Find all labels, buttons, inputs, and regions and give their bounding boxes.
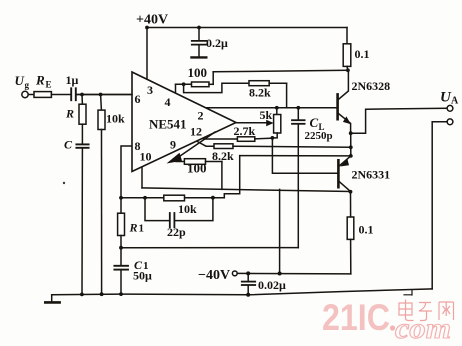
wire long lower run to 2N6331 collector [142, 188, 351, 192]
node collector junction dot [346, 68, 350, 72]
label 2.7k [234, 124, 256, 138]
capacitor CL 2250p [292, 108, 305, 248]
svg-text:NE541: NE541 [149, 117, 187, 132]
node rail dot 10k chain [100, 292, 104, 296]
svg-text:2N6331: 2N6331 [352, 168, 391, 182]
svg-text:2: 2 [198, 109, 204, 123]
label C1 [134, 258, 149, 272]
svg-text:10k: 10k [106, 112, 125, 126]
svg-text:+40V: +40V [136, 13, 168, 28]
svg-text:R: R [129, 221, 138, 235]
node CL top dot [296, 106, 300, 110]
terminal -40V circle [232, 271, 237, 276]
transistor Q1 emitter with arrow [338, 114, 351, 134]
stray ink dot [63, 182, 65, 184]
svg-text:U: U [15, 73, 25, 88]
svg-text:1μ: 1μ [66, 73, 79, 87]
resistor RE [28, 92, 70, 98]
svg-text:4: 4 [165, 95, 171, 109]
label 1u [66, 73, 79, 87]
svg-text:10k: 10k [178, 202, 197, 216]
wire pin9 diagonal from edge [177, 132, 216, 159]
label 5k [260, 108, 273, 122]
capacitor 0.02u [242, 273, 255, 294]
label R1 [129, 221, 145, 235]
svg-text:9: 9 [170, 138, 176, 152]
resistor 100 (lower) [176, 159, 222, 165]
wire 0.1 bottom stub to node [346, 66, 349, 70]
node +40V supply dot [145, 26, 149, 30]
label RE [35, 73, 52, 90]
wire +40V top rail [147, 27, 347, 29]
resistor 10k (input) [98, 95, 105, 295]
label 0.1 lower [359, 223, 374, 237]
svg-text:21IC: 21IC [322, 297, 390, 338]
wire output node to mid feedback run y=155.6 [240, 155, 351, 157]
svg-text:0.2μ: 0.2μ [206, 36, 228, 50]
svg-text:2.7k: 2.7k [234, 124, 256, 138]
label 2N6331 [352, 168, 391, 182]
svg-text:0.1: 0.1 [355, 47, 370, 61]
svg-text:R: R [65, 107, 74, 121]
svg-text:50μ: 50μ [133, 269, 152, 283]
ground rail small step mark [404, 290, 412, 295]
resistor R1 [118, 213, 125, 235]
pin label 3 [147, 83, 153, 97]
pin label 6 [135, 92, 141, 106]
terminal input circle [22, 91, 28, 97]
label 8.2k lower [212, 149, 234, 163]
svg-text:−40V: −40V [198, 268, 230, 283]
svg-text:100: 100 [188, 65, 208, 80]
node 10k row right dot [211, 196, 215, 200]
node input R tap dot [80, 93, 84, 97]
svg-text:C: C [310, 115, 319, 130]
svg-text:0.02μ: 0.02μ [258, 278, 286, 292]
wire jog down from y155.6 to 10k row [224, 156, 239, 198]
pin label 10 [140, 150, 152, 164]
label 2N6328 [352, 79, 391, 93]
node rail dot C1 chain [119, 292, 123, 296]
node R1 top dot [119, 196, 123, 200]
label 10k input [106, 112, 125, 126]
svg-text:2N6328: 2N6328 [352, 79, 391, 93]
node 5k/2.7k junction dot [271, 136, 275, 140]
node A junction dot (pin4 / 100) [182, 82, 186, 86]
wire pin 4 stub [175, 84, 177, 93]
label 0.02u [258, 278, 286, 292]
svg-text:6: 6 [135, 92, 141, 106]
label Ug [15, 73, 30, 90]
svg-text:2250p: 2250p [305, 130, 333, 142]
pin label 4 [165, 95, 171, 109]
node R1 bottom dot [119, 246, 123, 250]
capacitor 22p parallel loop [145, 198, 213, 228]
svg-text:12: 12 [190, 125, 202, 139]
capacitor C1 50u [114, 248, 128, 295]
svg-text:8.2k: 8.2k [249, 86, 271, 100]
wire pin 10 stub down [141, 167, 143, 188]
resistor 100 (upper) [176, 82, 214, 87]
label C [64, 138, 73, 152]
label 8.2k upper [249, 86, 271, 100]
wire 10k feedback row [121, 197, 224, 199]
wire R1 bottom to node [120, 236, 122, 248]
capacitor 0.2u [192, 28, 207, 58]
wire output chain down [350, 133, 352, 156]
svg-text:com: com [395, 312, 451, 345]
label 100 lower [187, 161, 207, 176]
wire jog from node A to 8.2k upper [184, 83, 249, 92]
wire rail corner down to 0.1 top resistor [346, 28, 348, 44]
node 0.2u tap dot [197, 26, 201, 30]
label +40V [136, 13, 168, 28]
wire op-amp output to 5k wiper with arrow [236, 120, 274, 126]
node input 10k tap dot [99, 93, 103, 97]
svg-text:C: C [64, 138, 73, 152]
label 2250p [305, 130, 333, 142]
capacitor C [76, 144, 88, 294]
wire pin 2 line to 2N6328 base [205, 107, 337, 109]
wire feedback top run y=71 [213, 70, 348, 72]
label 0.1 upper [355, 47, 370, 61]
label 50u [133, 269, 152, 283]
label 22p [167, 225, 186, 239]
resistor 10k (feedback) [164, 195, 185, 201]
label 0.2u [206, 36, 228, 50]
node Q2 collector dot [349, 190, 353, 194]
node 0.02u tap dot [246, 271, 250, 275]
transistor Q2 2N6331 base bar [337, 160, 340, 187]
svg-text:5k: 5k [260, 108, 273, 122]
wire op-amp pin 8 to R1 chain [121, 146, 132, 213]
pin label 12 [190, 125, 202, 139]
resistor R [79, 95, 86, 144]
svg-text:3: 3 [147, 83, 153, 97]
wire output to terminal Uo upper [351, 108, 447, 133]
capacitor 1u [71, 88, 132, 100]
resistor 2.7k [203, 137, 272, 142]
wire vertical from 100 right end up [212, 72, 214, 85]
wire R1C1 row to CL bottom [121, 247, 298, 249]
node chain dot lower [349, 154, 353, 158]
label NE541 [149, 117, 187, 132]
label 10k feedback [178, 202, 197, 216]
node 5k top dot [275, 106, 279, 110]
svg-text:0.1: 0.1 [359, 223, 374, 237]
transistor Q1 2N6328 base bar [336, 94, 339, 119]
ground symbol [51, 295, 53, 303]
node 10k row left dot [143, 196, 147, 200]
node -40V drop junction dot [278, 272, 282, 276]
node chain dot mid [349, 145, 353, 149]
label UA [440, 90, 459, 107]
svg-text:R: R [35, 73, 45, 88]
wire 8.2k upper down to base line [286, 83, 288, 108]
watermark 21IC [322, 297, 454, 345]
pin label 8 [135, 139, 141, 153]
node rail dot 0.02u [246, 293, 250, 297]
wire down then right to 2N6331 base [272, 138, 337, 173]
watermark dianziwang characters [399, 300, 454, 321]
wire lower terminal down right side to ground rail [432, 122, 447, 289]
wire drop from lower run to -40V line [279, 189, 281, 273]
svg-text:100: 100 [187, 161, 207, 176]
terminal circle lower [447, 119, 453, 125]
svg-text:22p: 22p [167, 225, 186, 239]
svg-text:A: A [451, 96, 459, 107]
arrow into 100 lower [167, 153, 183, 164]
wire 100 lower right end down to lower run [221, 162, 223, 190]
node rail dot R chain [80, 293, 84, 297]
resistor 8.2k (upper) [249, 81, 287, 86]
node output emitter dot [349, 131, 353, 135]
label 100 upper [188, 65, 208, 80]
wire input to pin 6 (drawn over triangle fill) [77, 94, 132, 96]
svg-text:1: 1 [139, 223, 145, 235]
wire pin 12 stub to 8.2k lower [196, 141, 215, 147]
label -40V [198, 268, 230, 283]
wire -40V line [237, 272, 351, 275]
label CL [310, 115, 325, 132]
pin label 9 [170, 138, 176, 152]
potentiometer 5k [272, 108, 280, 138]
wire ground rail [52, 289, 433, 295]
transistor Q2 emitter with arrow (points toward bar) [339, 156, 351, 167]
wire +40V stub down to op-amp pin 3 [146, 28, 148, 79]
terminal circle upper [447, 105, 453, 111]
svg-text:E: E [46, 80, 52, 90]
resistor 0.1 (upper, collector load) [343, 44, 351, 67]
resistor 0.1 (lower) [347, 192, 354, 274]
label R [65, 107, 74, 121]
svg-text:g: g [25, 80, 30, 90]
svg-text:10: 10 [140, 150, 152, 164]
resistor 8.2k (lower) [214, 144, 351, 149]
transistor Q1 collector [338, 70, 348, 99]
op-amp U1 NE541 triangle [132, 72, 236, 172]
pin label 2 [198, 109, 204, 123]
transistor Q2 collector [339, 182, 350, 192]
